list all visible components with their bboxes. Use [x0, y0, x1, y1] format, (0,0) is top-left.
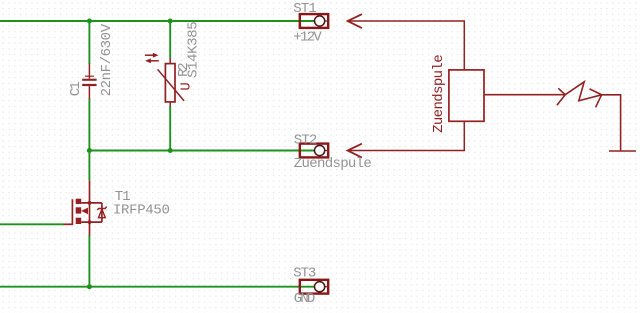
svg-text:C1: C1: [68, 81, 84, 96]
svg-text:Zuendspule: Zuendspule: [294, 156, 372, 172]
svg-text:Zuendspule: Zuendspule: [431, 54, 447, 133]
svg-text:ST3: ST3: [293, 266, 316, 282]
svg-text:22nF/630V: 22nF/630V: [99, 23, 115, 96]
svg-text:+12V: +12V: [293, 29, 322, 45]
svg-text:ST2: ST2: [294, 132, 318, 148]
svg-text:U: U: [178, 82, 194, 90]
svg-text:IRFP450: IRFP450: [113, 202, 170, 218]
svg-text:ST1: ST1: [293, 1, 317, 17]
svg-text:GND: GND: [294, 291, 316, 307]
svg-text:S14K385: S14K385: [185, 21, 201, 78]
